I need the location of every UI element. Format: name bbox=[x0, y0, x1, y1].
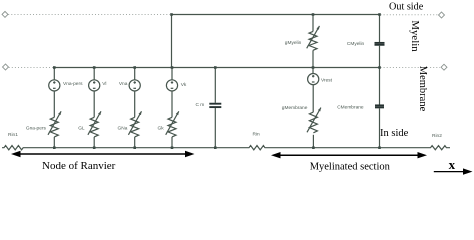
wire bbox=[312, 85, 314, 112]
branch Vrest + gMembrane bbox=[282, 68, 333, 148]
resistor Gna-pers (variable) bbox=[50, 117, 58, 137]
wire stub bbox=[134, 68, 136, 80]
svg-text:gMyelin: gMyelin bbox=[285, 40, 302, 46]
svg-text:Node of Ranvier: Node of Ranvier bbox=[42, 160, 116, 172]
svg-text:C m: C m bbox=[196, 102, 205, 108]
wire bbox=[53, 91, 55, 117]
svg-text:Myelin: Myelin bbox=[409, 20, 421, 52]
wire bbox=[214, 68, 216, 103]
svg-text:Vk: Vk bbox=[181, 82, 187, 88]
wire bbox=[171, 91, 173, 117]
wire stub bbox=[53, 68, 55, 80]
svg-text:Rin1: Rin1 bbox=[8, 132, 18, 138]
wire stub bbox=[93, 68, 95, 80]
svg-text:Vna-pers: Vna-pers bbox=[63, 81, 83, 87]
wire middle rail solid bbox=[54, 67, 379, 69]
svg-text:x: x bbox=[449, 157, 456, 172]
wire top rail solid bbox=[172, 14, 380, 16]
svg-text:Vl: Vl bbox=[102, 81, 106, 87]
wire stub bbox=[171, 68, 173, 80]
wire bbox=[312, 15, 314, 32]
double arrow Node of Ranvier bbox=[11, 151, 195, 157]
branch 4: Vk source bbox=[158, 68, 187, 148]
wire bbox=[214, 108, 216, 148]
svg-text:Vna: Vna bbox=[119, 81, 128, 87]
node marker middle-right terminal bbox=[441, 64, 447, 70]
capacitor CMyelin on right vertical bbox=[337, 15, 384, 148]
wire bbox=[53, 137, 55, 148]
svg-text:GL: GL bbox=[78, 126, 85, 132]
svg-text:Vrest: Vrest bbox=[321, 78, 333, 84]
resistor GNa (variable) bbox=[131, 117, 139, 137]
source V circle bbox=[89, 80, 100, 91]
source V circle bbox=[129, 80, 140, 91]
resistor gMyelin (variable) bbox=[309, 31, 317, 50]
svg-text:Gna-pers: Gna-pers bbox=[26, 126, 47, 132]
svg-text:Myelinated section: Myelinated section bbox=[310, 161, 391, 172]
wire bbox=[134, 91, 136, 117]
wire bbox=[93, 137, 95, 148]
resistor Gk (variable) bbox=[168, 117, 176, 137]
svg-text:CMyelin: CMyelin bbox=[347, 41, 365, 47]
source Vrest circle bbox=[308, 74, 319, 85]
node marker top-left terminal bbox=[2, 11, 8, 17]
wire top rail dotted right bbox=[381, 14, 439, 16]
svg-text:gMembrane: gMembrane bbox=[282, 105, 308, 111]
wire bbox=[312, 135, 314, 148]
wire vertical top-rail to middle-rail at x=171.5 bbox=[171, 15, 173, 68]
wire bbox=[379, 46, 381, 105]
svg-text:Rin: Rin bbox=[253, 132, 261, 138]
capacitor CMyelin bbox=[375, 42, 385, 44]
branch 1: Vna-pers source bbox=[26, 68, 83, 148]
svg-text:Gk: Gk bbox=[158, 126, 165, 132]
capacitor C m bbox=[209, 103, 221, 105]
wire bbox=[312, 50, 314, 67]
node marker top-right terminal bbox=[439, 12, 445, 18]
wire stub bbox=[312, 68, 314, 74]
resistor GL (variable) bbox=[90, 117, 98, 137]
double arrow Myelinated section bbox=[271, 152, 427, 158]
capacitor C m branch bbox=[196, 68, 222, 148]
capacitor CMembrane bbox=[375, 104, 384, 106]
svg-text:Membrane: Membrane bbox=[417, 66, 428, 112]
svg-text:Rin2: Rin2 bbox=[432, 133, 442, 139]
wire middle rail dotted right bbox=[381, 67, 441, 69]
svg-text:In side: In side bbox=[380, 128, 409, 139]
wire bbox=[171, 137, 173, 148]
wire bbox=[93, 91, 95, 117]
svg-text:GNa: GNa bbox=[118, 126, 128, 132]
svg-text:CMembrane: CMembrane bbox=[337, 105, 364, 111]
wire top rail dotted left bbox=[8, 14, 170, 16]
branch 3: Vna source bbox=[118, 68, 142, 148]
wire bbox=[134, 137, 136, 148]
svg-text:Out side: Out side bbox=[389, 2, 424, 13]
wire bottom rail with series resistors bbox=[2, 146, 450, 150]
x axis arrow bbox=[434, 168, 473, 174]
source V circle bbox=[166, 80, 177, 91]
branch 2: Vl source bbox=[78, 68, 106, 148]
node marker middle-left terminal bbox=[3, 64, 9, 70]
source V circle bbox=[49, 80, 60, 91]
wire bbox=[379, 108, 381, 147]
wire middle rail dotted left bbox=[9, 67, 53, 69]
resistor gMembrane (variable) bbox=[309, 112, 317, 133]
wire right vertical upper bbox=[379, 15, 381, 43]
branch gMyelin bbox=[285, 15, 320, 68]
